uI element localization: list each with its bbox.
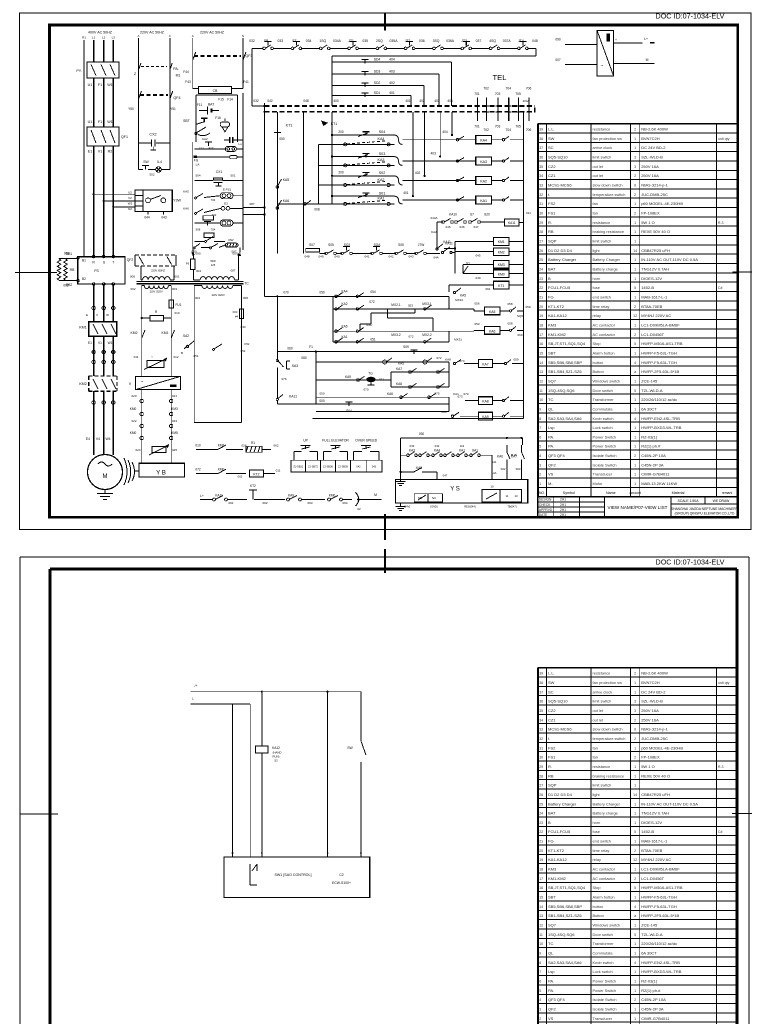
brake YB box — [139, 463, 185, 477]
svg-text:S03: S03 — [516, 467, 521, 471]
svg-text:Lu: Lu — [238, 142, 242, 146]
svg-text:TZL-WLD-A: TZL-WLD-A — [641, 388, 663, 393]
page 1 right center tick — [732, 271, 752, 273]
svg-text:BT8A-70EB: BT8A-70EB — [641, 848, 662, 853]
svg-text:KM1: KM1 — [498, 240, 505, 244]
connector pins row3 — [92, 401, 115, 405]
svg-text:KM0: KM0 — [130, 407, 137, 411]
svg-text:KT2: KT2 — [250, 484, 256, 488]
knob switch SA2 — [181, 334, 199, 358]
svg-text:Isolate Switch: Isolate Switch — [593, 453, 617, 458]
svg-text:SW: SW — [347, 746, 353, 750]
svg-text:SZL-WLD-B: SZL-WLD-B — [641, 699, 663, 704]
svg-text:A: A — [137, 34, 139, 38]
svg-text:Windows switch: Windows switch — [593, 378, 621, 383]
svg-text:15: 15 — [539, 352, 543, 356]
svg-text:1: 1 — [634, 296, 636, 300]
wire mid rails — [332, 296, 334, 342]
coil KA5 mid — [474, 301, 530, 318]
svg-text:N: N — [242, 34, 244, 38]
svg-text:LA: LA — [196, 163, 200, 167]
svg-text:010: 010 — [174, 311, 179, 315]
svg-text:SA1: SA1 — [472, 449, 478, 453]
chain KA10 S7 S20 — [437, 213, 505, 230]
svg-text:5: 5 — [634, 933, 636, 937]
svg-text:B2: B2 — [82, 277, 86, 281]
svg-text:KA11: KA11 — [289, 395, 297, 399]
wire L+ page2 — [190, 684, 361, 693]
label E1 V1 R1 — [88, 150, 113, 154]
page 2 inner frame — [50, 569, 737, 1024]
wire bus feeders — [243, 202, 266, 216]
svg-text:30: 30 — [539, 212, 543, 216]
svg-text:50W: 50W — [210, 259, 216, 263]
svg-text:Name: Name — [606, 491, 616, 495]
svg-text:18: 18 — [539, 324, 543, 328]
svg-text:010: 010 — [195, 444, 201, 448]
svg-text:072: 072 — [408, 334, 413, 338]
svg-text:WE DRAW: WE DRAW — [713, 499, 730, 503]
svg-text:37: 37 — [539, 690, 543, 694]
svg-text:036: 036 — [419, 39, 425, 43]
svg-text:02: 02 — [357, 507, 361, 511]
svg-text:39: 39 — [539, 128, 543, 132]
svg-text:fan: fan — [593, 755, 598, 760]
svg-text:087: 087 — [249, 202, 254, 206]
svg-text:060: 060 — [517, 333, 522, 337]
svg-text:DATE: DATE — [539, 513, 548, 517]
svg-text:NMG-3214-p-1: NMG-3214-p-1 — [641, 727, 668, 732]
svg-text:025: 025 — [172, 448, 177, 452]
svg-text:13: 13 — [539, 370, 543, 374]
svg-text:MCS1-MCS6: MCS1-MCS6 — [548, 727, 572, 732]
svg-text:DOC ID:07-1034-ELV: DOC ID:07-1034-ELV — [656, 558, 725, 567]
svg-text:051: 051 — [193, 354, 198, 358]
svg-text:29: 29 — [539, 765, 543, 769]
svg-text:KT1-KT2: KT1-KT2 — [548, 848, 565, 853]
page 1 bottom center tick — [384, 514, 386, 540]
switch SBT — [183, 118, 207, 124]
svg-text:21: 21 — [539, 296, 543, 300]
svg-text:PA.: PA. — [548, 988, 554, 993]
svg-text:#4: #4 — [235, 315, 239, 319]
contact KA6 left rail — [276, 199, 289, 209]
svg-text:SB5,SB6,SB8,SBP: SB5,SB6,SB8,SBP — [548, 904, 582, 909]
svg-text:34: 34 — [539, 174, 543, 178]
svg-text:Isolate Switch: Isolate Switch — [593, 997, 617, 1002]
svg-text:limit switch: limit switch — [593, 155, 612, 160]
svg-text:072: 072 — [195, 468, 201, 472]
svg-text:051: 051 — [370, 338, 376, 342]
svg-text:2SQ: 2SQ — [376, 39, 383, 43]
svg-text:1SQ-4SQ,SQ6: 1SQ-4SQ,SQ6 — [548, 388, 575, 393]
svg-text:/-: /- — [192, 697, 194, 701]
inner rail ladder — [314, 135, 332, 212]
svg-text:007: 007 — [231, 250, 236, 254]
svg-text:250V 16A: 250V 16A — [641, 717, 659, 722]
svg-text:V4: V4 — [96, 437, 100, 441]
svg-text:Symbol: Symbol — [563, 491, 575, 495]
wire bottom row third — [193, 244, 225, 249]
svg-text:060: 060 — [287, 347, 293, 351]
svg-text:033: 033 — [277, 39, 283, 43]
svg-text:13: 13 — [514, 494, 518, 498]
svg-text:14: 14 — [633, 249, 637, 253]
page 1 top center tick — [384, 13, 386, 31]
svg-text:Knob switch: Knob switch — [593, 416, 614, 421]
svg-text:M-: M- — [548, 481, 553, 486]
svg-text:501: 501 — [230, 174, 235, 178]
ladder pair S04 KA4 — [318, 112, 464, 146]
svg-text:FG: FG — [548, 839, 554, 844]
svg-text:12: 12 — [633, 858, 637, 862]
svg-text:048: 048 — [303, 99, 309, 103]
svg-text:/+: /+ — [195, 684, 198, 688]
svg-text:S02: S02 — [501, 467, 506, 471]
svg-text:504: 504 — [195, 174, 200, 178]
svg-text:KA2: KA2 — [202, 137, 208, 141]
svg-text:250V 16A: 250V 16A — [641, 164, 659, 169]
svg-text:CBB47R25 uFH: CBB47R25 uFH — [641, 792, 670, 797]
svg-text:037: 037 — [476, 39, 482, 43]
svg-text:15: 15 — [539, 896, 543, 900]
svg-text:38: 38 — [539, 137, 543, 141]
svg-text:090: 090 — [555, 38, 561, 42]
svg-text:MX2-1: MX2-1 — [391, 303, 401, 307]
mid row 5 — [301, 356, 464, 366]
svg-text:fan protection sw: fan protection sw — [593, 680, 623, 685]
svg-text:FS: FS — [94, 269, 99, 273]
svg-text:E4: E4 — [86, 437, 90, 441]
svg-text:26: 26 — [539, 249, 543, 253]
svg-text:23: 23 — [539, 821, 543, 825]
svg-text:V2: V2 — [128, 196, 132, 200]
page 2 top center tick — [384, 549, 386, 573]
contactor KM2 — [79, 376, 117, 391]
svg-text:050: 050 — [279, 137, 285, 141]
svg-text:072: 072 — [436, 356, 441, 360]
svg-text:(GND): (GND) — [430, 505, 438, 509]
svg-text:HWFP-2F5-63L-5*1B: HWFP-2F5-63L-5*1B — [641, 369, 679, 374]
wire rail to KA1 row — [277, 200, 318, 205]
timer contact KT1 — [274, 133, 285, 142]
page 1 left center tick — [15, 271, 57, 273]
svg-text:relay: relay — [593, 313, 601, 318]
svg-text:Lock switch: Lock switch — [593, 425, 613, 430]
relay coil KA1 — [456, 196, 523, 204]
svg-text:V: V — [96, 313, 98, 317]
svg-text:LC1-D0456T: LC1-D0456T — [641, 876, 664, 881]
svg-text:404: 404 — [389, 58, 395, 62]
mid row 3 — [333, 323, 449, 332]
svg-text:34: 34 — [539, 718, 543, 722]
svg-text:3: 3 — [634, 165, 636, 169]
svg-text:TNG12V 0.7AH: TNG12V 0.7AH — [641, 811, 669, 816]
svg-text:F44: F44 — [183, 70, 189, 74]
breaker QF1 — [87, 127, 128, 146]
parts list table page 1 — [538, 124, 738, 497]
svg-text:1: 1 — [634, 324, 636, 328]
svg-text:Transducer: Transducer — [593, 1016, 613, 1021]
contactor PY main — [76, 62, 119, 78]
svg-text:Door switch: Door switch — [593, 932, 613, 937]
svg-text:1: 1 — [634, 230, 636, 234]
svg-text:18: 18 — [539, 868, 543, 872]
svg-text:1: 1 — [634, 379, 636, 383]
svg-text:SQ5-SQ10: SQ5-SQ10 — [548, 155, 568, 160]
rectifier VC box — [129, 376, 181, 389]
svg-text:1: 1 — [634, 445, 636, 449]
svg-text:C45N-2P 10A: C45N-2P 10A — [641, 453, 666, 458]
svg-text:L1: L1 — [92, 36, 96, 40]
svg-text:temperature switch: temperature switch — [593, 192, 626, 197]
svg-text:Lsp: Lsp — [548, 425, 555, 430]
svg-text:Stop: Stop — [593, 885, 601, 890]
wire YS top rail — [401, 432, 523, 480]
svg-text:SQA: SQA — [374, 243, 382, 247]
switch SA3 — [276, 352, 298, 399]
svg-text:035: 035 — [362, 39, 368, 43]
svg-text:2: 2 — [634, 877, 636, 881]
svg-text:KM2: KM2 — [131, 331, 138, 335]
relay coil KA11 — [505, 219, 524, 226]
svg-text:059: 059 — [513, 358, 518, 362]
svg-text:QF2: QF2 — [548, 462, 557, 467]
svg-text:1452-B: 1452-B — [641, 285, 654, 290]
svg-text:TG: TG — [368, 372, 373, 376]
svg-text:4: 4 — [634, 961, 636, 965]
svg-text:Commutate: Commutate — [593, 951, 613, 956]
coil KA9 — [441, 410, 523, 420]
svg-text:fuse: fuse — [593, 285, 600, 290]
svg-text:SW: SW — [548, 136, 555, 141]
svg-text:1452-B: 1452-B — [641, 829, 654, 834]
svg-text:Material: Material — [672, 491, 685, 495]
svg-text:SQ7: SQ7 — [548, 923, 557, 928]
svg-text:C#: C# — [718, 830, 723, 834]
svg-text:058: 058 — [507, 322, 512, 326]
svg-text:SA3: SA3 — [292, 364, 299, 368]
svg-text:073: 073 — [457, 395, 462, 399]
svg-text:S04: S04 — [346, 409, 352, 413]
svg-text:HWFP-F5-63L-TGH: HWFP-F5-63L-TGH — [641, 895, 677, 900]
svg-text:050: 050 — [474, 322, 479, 326]
svg-text:SD3: SD3 — [374, 69, 381, 73]
svg-text:M: M — [646, 58, 649, 62]
svg-text:401: 401 — [403, 191, 409, 195]
svg-text:004: 004 — [195, 296, 200, 300]
svg-text:11: 11 — [539, 389, 543, 393]
svg-text:CZ1: CZ1 — [548, 173, 556, 178]
svg-text:059: 059 — [525, 305, 530, 309]
svg-text:702: 702 — [212, 213, 217, 217]
svg-text:BAT: BAT — [548, 811, 556, 816]
svg-text:087: 087 — [231, 269, 236, 273]
svg-text:1: 1 — [634, 146, 636, 150]
button groups UP FULL OVERSPEED — [291, 439, 382, 472]
svg-text:1: 1 — [634, 746, 636, 750]
title block page 1 — [538, 497, 739, 517]
svg-text:QF2: QF2 — [127, 258, 134, 262]
brake arcs — [124, 458, 139, 485]
svg-text:S03: S03 — [379, 152, 386, 156]
svg-text:3SQ: 3SQ — [433, 39, 440, 43]
svg-text:011: 011 — [526, 211, 531, 215]
svg-text:IN-110V AC OUT-110V DC 0.5A: IN-110V AC OUT-110V DC 0.5A — [641, 257, 698, 262]
svg-text:SB1-SB4,SZ1-SZ6: SB1-SB4,SZ1-SZ6 — [548, 913, 582, 918]
svg-text:9: 9 — [539, 952, 541, 956]
svg-text:S02: S02 — [379, 171, 386, 175]
svg-text:U1: U1 — [88, 83, 93, 87]
svg-text:28: 28 — [539, 230, 543, 234]
svg-text:L.L.: L.L. — [548, 671, 555, 676]
svg-text:Battery Charger: Battery Charger — [548, 257, 577, 262]
svg-text:16: 16 — [539, 886, 543, 890]
svg-text:KA11: KA11 — [215, 494, 223, 498]
svg-text:KA11: KA11 — [443, 240, 451, 244]
resistor R bridge — [141, 310, 172, 321]
svg-text:SW: SW — [143, 160, 149, 164]
svg-text:706: 706 — [526, 128, 532, 132]
svg-text:10: 10 — [539, 398, 543, 402]
svg-text:LC1-D09M5LA-BM6F: LC1-D09M5LA-BM6F — [641, 867, 680, 872]
svg-text:5: 5 — [634, 389, 636, 393]
svg-text:1: 1 — [634, 840, 636, 844]
svg-text:DESIGN: DESIGN — [539, 498, 552, 502]
svg-text:KM3: KM3 — [548, 323, 557, 328]
svg-text:APPRVD: APPRVD — [539, 508, 553, 512]
svg-text:KM1-KM2: KM1-KM2 — [548, 332, 567, 337]
svg-text:button: button — [593, 360, 604, 365]
svg-text:SQ6: SQ6 — [517, 314, 523, 318]
svg-text:19: 19 — [539, 314, 543, 318]
contact KA11 vert — [436, 230, 456, 250]
svg-text:29: 29 — [539, 221, 543, 225]
svg-text:R.3: R.3 — [718, 765, 724, 769]
contact T third — [199, 142, 214, 151]
svg-text:061: 061 — [485, 287, 490, 291]
svg-text:SB,JT,ST1,SQ1,SQ4: SB,JT,ST1,SQ1,SQ4 — [548, 885, 586, 890]
svg-text:relay: relay — [593, 857, 601, 862]
svg-text:704: 704 — [211, 228, 216, 232]
svg-text:20: 20 — [539, 849, 543, 853]
svg-text:W: W — [106, 313, 109, 317]
svg-text:F14: F14 — [227, 98, 233, 102]
svg-text:KA7: KA7 — [396, 367, 402, 371]
ladder pair S01 KA1 — [318, 112, 464, 205]
svg-text:706: 706 — [526, 87, 532, 91]
svg-text:SD4: SD4 — [374, 58, 381, 62]
svg-text:S11: S11 — [492, 460, 497, 464]
svg-text:SZL-WLD-B: SZL-WLD-B — [641, 155, 663, 160]
YS internal left — [414, 494, 442, 502]
svg-text:KA6: KA6 — [497, 455, 503, 459]
svg-text:2: 2 — [634, 333, 636, 337]
svg-text:508: 508 — [196, 228, 201, 232]
svg-text:11: 11 — [539, 933, 543, 937]
svg-text:31: 31 — [539, 202, 543, 206]
svg-text:R1: R1 — [82, 36, 86, 40]
wire 220V pair 3 — [139, 99, 170, 170]
svg-text:W1: W1 — [108, 341, 113, 345]
junction 050 — [276, 291, 333, 298]
svg-text:043: 043 — [408, 255, 413, 259]
svg-text:3: 3 — [539, 463, 541, 467]
svg-text:4: 4 — [634, 905, 636, 909]
svg-text:250V 16A: 250V 16A — [641, 708, 659, 713]
svg-text:1SQ-4SQ,SQ6: 1SQ-4SQ,SQ6 — [548, 932, 575, 937]
svg-text:VIEW NAME/P07-VIEW LIST: VIEW NAME/P07-VIEW LIST — [608, 505, 668, 510]
row L+ horn — [200, 484, 381, 511]
svg-text:1: 1 — [634, 482, 636, 486]
connector pins E V W — [86, 306, 115, 317]
svg-text:CZ2: CZ2 — [548, 708, 556, 713]
svg-text:19: 19 — [539, 858, 543, 862]
svg-text:SC: SC — [548, 689, 554, 694]
svg-text:FULL ELEVATOR: FULL ELEVATOR — [322, 439, 349, 443]
svg-text:OVER SPEED: OVER SPEED — [355, 439, 378, 443]
svg-text:DOC ID:07-1034-ELV: DOC ID:07-1034-ELV — [656, 12, 725, 21]
svg-text:Y50: Y50 — [128, 107, 134, 111]
svg-text:E1: E1 — [88, 341, 92, 345]
svg-text:030: 030 — [419, 432, 425, 436]
svg-text:CIMR-G7B4011: CIMR-G7B4011 — [641, 472, 670, 477]
svg-text:LC1-D0456T: LC1-D0456T — [641, 332, 664, 337]
svg-text:050: 050 — [319, 291, 325, 295]
svg-text:SA2: SA2 — [183, 334, 189, 338]
wire 048 drop — [303, 112, 305, 254]
svg-text:RES(044): RES(044) — [464, 505, 476, 509]
svg-text:KT1: KT1 — [498, 284, 504, 288]
ground YS box — [396, 503, 406, 511]
svg-text:TB(047): TB(047) — [507, 505, 517, 509]
svg-text:14A: 14A — [492, 471, 497, 475]
svg-text:KA6: KA6 — [283, 199, 290, 203]
svg-text:NMG-3214-p-1: NMG-3214-p-1 — [641, 183, 668, 188]
mid row 8 — [316, 392, 469, 399]
svg-text:2H1: 2H1 — [560, 508, 566, 512]
svg-text:035A: 035A — [390, 39, 399, 43]
svg-text:043: 043 — [161, 215, 167, 219]
svg-text:1: 1 — [634, 952, 636, 956]
controller YS box — [395, 480, 527, 504]
svg-text:17: 17 — [539, 877, 543, 881]
svg-text:2: 2 — [539, 1017, 541, 1021]
svg-text:M: M — [374, 493, 377, 497]
svg-text:3: 3 — [539, 1008, 541, 1012]
wire motor phases 1 — [94, 284, 114, 322]
svg-text:end switch: end switch — [593, 839, 611, 844]
contacts KA6 KA7 YS — [497, 437, 525, 480]
svg-text:UP: UP — [303, 439, 308, 443]
svg-text:FP-108EX: FP-108EX — [641, 211, 660, 216]
svg-text:ZJ-SB31: ZJ-SB31 — [293, 466, 303, 469]
svg-text:1: 1 — [634, 463, 636, 467]
svg-text:KT1-KT2: KT1-KT2 — [548, 304, 565, 309]
svg-text:SD1: SD1 — [374, 91, 381, 95]
motor M — [88, 455, 123, 490]
svg-text:35: 35 — [539, 165, 543, 169]
svg-text:ECW-S100+: ECW-S100+ — [332, 881, 351, 885]
svg-text:220V AC 50HZ: 220V AC 50HZ — [140, 31, 165, 35]
row 072 KM0 KT2 — [195, 468, 280, 479]
svg-text:704: 704 — [211, 198, 216, 202]
svg-text:C45N-2P 3A: C45N-2P 3A — [641, 462, 664, 467]
svg-text:PA.: PA. — [548, 444, 554, 449]
svg-text:KA6: KA6 — [489, 329, 496, 333]
svg-text:2: 2 — [634, 305, 636, 309]
svg-text:070: 070 — [283, 291, 289, 295]
